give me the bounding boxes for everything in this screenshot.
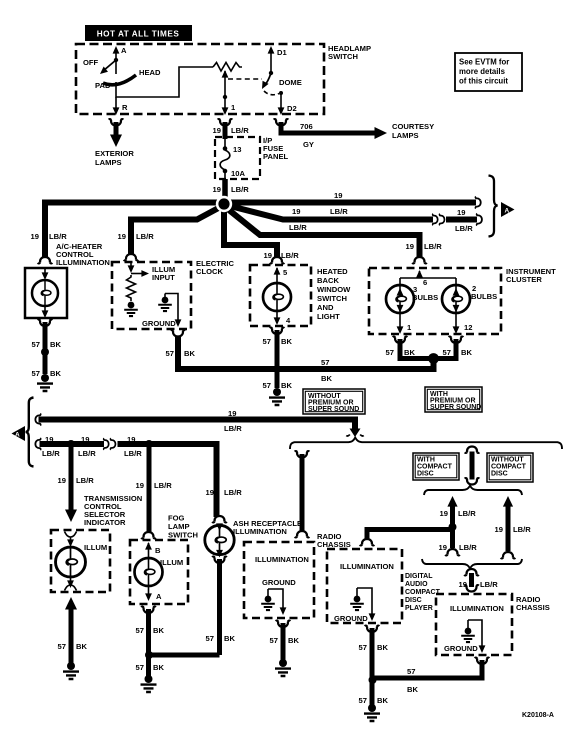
svg-text:LB/R: LB/R [513, 525, 531, 534]
pin 1 arrow [222, 107, 229, 115]
svg-text:19: 19 [213, 185, 221, 194]
svg-text:BK: BK [288, 636, 299, 645]
svg-text:of this circuit: of this circuit [459, 77, 508, 86]
label 57 BK [32, 340, 62, 349]
svg-text:19: 19 [213, 126, 221, 135]
label 19 LB/R fog [136, 481, 173, 490]
wire switch to R [115, 97, 117, 112]
I/P FUSE PANEL label [263, 136, 289, 161]
bus 2 end cap [35, 438, 40, 450]
connector into A/C heater [38, 257, 53, 263]
svg-text:D1: D1 [277, 48, 287, 57]
pin D2 arrow [278, 107, 285, 115]
svg-text:BK: BK [224, 634, 235, 643]
internal ground box2 [350, 596, 364, 610]
connector below pin 1 [218, 119, 233, 125]
svg-text:57: 57 [32, 369, 40, 378]
splice dot fog ground [145, 651, 153, 659]
svg-text:LB/R: LB/R [480, 580, 498, 589]
label 57 BK cluster left [386, 348, 416, 357]
in-line connector compact disc [465, 447, 480, 485]
svg-text:19: 19 [334, 191, 342, 200]
ground fog lamp [141, 675, 157, 692]
label 19 LB/R bus2 b [78, 435, 96, 458]
svg-text:D2: D2 [287, 104, 297, 113]
connector into heated back window [270, 257, 285, 263]
connector A triangle left [12, 426, 26, 441]
splice dot box2 ground [369, 676, 377, 684]
svg-text:CLUSTER: CLUSTER [506, 275, 542, 284]
wire R exterior lamps [114, 122, 119, 136]
resistor tap arrow [222, 70, 229, 111]
transmission entry connector [65, 532, 77, 548]
svg-text:HOT AT ALL TIMES: HOT AT ALL TIMES [97, 30, 180, 39]
svg-text:57: 57 [407, 667, 415, 676]
DIGITAL AUDIO COMPACT DISC PLAYER label [405, 573, 441, 612]
ground A/C heater [37, 374, 53, 391]
splice dot cluster grounds [428, 353, 439, 364]
A/C heater bulb [32, 280, 58, 306]
HEATED BACK WINDOW SWITCH AND LIGHT label [317, 267, 351, 321]
internal ground box1 [261, 596, 275, 610]
svg-text:57: 57 [32, 340, 40, 349]
svg-text:CHASSIS: CHASSIS [317, 540, 351, 549]
TRANSMISSION CONTROL SELECTOR INDICATOR label [84, 494, 142, 527]
with premium sound box [425, 387, 482, 412]
label 19 LB/R heated drop [264, 251, 300, 260]
radio options brace [290, 438, 562, 450]
svg-text:CLOCK: CLOCK [196, 267, 224, 276]
svg-text:BK: BK [281, 381, 292, 390]
ground box1 [275, 659, 291, 676]
label 19 LB/R bus2 a [42, 435, 60, 458]
svg-text:A: A [121, 46, 127, 55]
A/C-HEATER CONTROL ILLUMINATION label [56, 242, 110, 267]
wire ash to fog splice [149, 653, 220, 658]
label 19 LB/R [213, 126, 250, 135]
svg-text:DISC: DISC [491, 471, 508, 478]
svg-text:LB/R: LB/R [455, 224, 473, 233]
terminal D1 arrow [268, 46, 275, 73]
A/C heater box [25, 268, 67, 318]
connector below R [109, 119, 124, 125]
svg-text:10A: 10A [231, 169, 245, 178]
wire to electric clock [131, 205, 224, 254]
label 57 BK below dot [263, 381, 293, 390]
connector into fog lamp switch [141, 532, 156, 538]
svg-text:DIGITAL: DIGITAL [405, 573, 433, 580]
label 57 BK heated [263, 337, 293, 346]
svg-text:INPUT: INPUT [152, 273, 175, 282]
electric clock box [112, 262, 191, 329]
svg-text:HEAD: HEAD [139, 68, 161, 77]
label 57 BK ash [206, 634, 236, 643]
svg-text:BK: BK [377, 696, 388, 705]
wire 57 BK ash ground [217, 559, 222, 655]
svg-text:DISC: DISC [405, 597, 422, 604]
svg-text:LB/R: LB/R [281, 251, 299, 260]
clock internal ground right [158, 297, 172, 311]
heated back window box [250, 265, 311, 326]
svg-text:DOME: DOME [279, 78, 302, 87]
svg-text:19: 19 [45, 435, 53, 444]
label 57 BK fog lower [136, 663, 165, 672]
without compact disc box [487, 453, 533, 482]
svg-text:19: 19 [206, 488, 214, 497]
wire to fog lamp switch [147, 444, 152, 533]
svg-text:LB/R: LB/R [78, 449, 96, 458]
label 57 BK [32, 369, 62, 378]
bus 2 wire segment 2 [118, 444, 217, 517]
svg-text:ILLUMINATION: ILLUMINATION [340, 562, 394, 571]
svg-text:AND: AND [317, 303, 334, 312]
bus 1 wire 19 LB/R [39, 420, 356, 432]
without premium sound box [303, 389, 365, 414]
resistor (rheostat) [213, 63, 242, 72]
connector below D2 [274, 119, 289, 125]
svg-text:LB/R: LB/R [458, 509, 476, 518]
terminal A arrow [113, 46, 120, 74]
radio chassis box left [244, 542, 314, 618]
svg-text:LB/R: LB/R [231, 185, 249, 194]
fog bulb lead in [145, 542, 152, 558]
svg-text:more details: more details [459, 67, 506, 76]
label 19 LB/R cluster drop [406, 242, 443, 251]
wire to heated back window [224, 204, 277, 257]
svg-text:19: 19 [440, 509, 448, 518]
fog lamp bulb [135, 558, 163, 586]
ganged switch dashed link [228, 78, 262, 80]
svg-text:LB/R: LB/R [49, 232, 67, 241]
ash receptacle bulb [205, 523, 234, 557]
svg-text:57: 57 [263, 381, 271, 390]
svg-text:BK: BK [76, 642, 87, 651]
exterior lamps arrow [110, 135, 122, 148]
connector below ash bulb [212, 557, 227, 563]
RADIO CHASSIS label right [516, 595, 550, 612]
svg-text:BK: BK [461, 348, 472, 357]
svg-text:LB/R: LB/R [459, 543, 477, 552]
svg-text:SWITCH: SWITCH [168, 531, 198, 540]
svg-text:BK: BK [407, 685, 418, 694]
label 19 LB/R without CD [495, 525, 532, 534]
label 57 BK transmission [58, 642, 88, 651]
compact disc split brace [424, 486, 522, 495]
svg-text:19: 19 [495, 525, 503, 534]
svg-text:A: A [15, 432, 20, 439]
cluster feed tee [397, 270, 460, 313]
bus 2 wire segment 1 [40, 441, 105, 447]
svg-text:LB/R: LB/R [124, 449, 142, 458]
hot at all times label [85, 25, 192, 41]
svg-text:LB/R: LB/R [224, 424, 242, 433]
3 BULBS label [412, 285, 438, 302]
svg-text:LB/R: LB/R [224, 488, 242, 497]
see EVTM note box [455, 53, 522, 91]
svg-text:ILLUMINATION: ILLUMINATION [56, 258, 110, 267]
clock illum input lead [128, 262, 149, 277]
wire fuse to junction [222, 179, 228, 200]
internal ground box3 [461, 628, 475, 642]
2 BULBS label [471, 284, 497, 301]
wire 57 BK box1 ground [281, 623, 286, 660]
svg-text:GROUND: GROUND [444, 644, 478, 653]
wire 57 BK A/C ground [43, 322, 48, 374]
fuse 13 10A [220, 139, 230, 179]
wire heated ground [275, 330, 280, 388]
label 57 BK cluster right [443, 348, 473, 357]
I/P fuse panel box [215, 137, 260, 179]
label 19 LB/R ash [206, 488, 243, 497]
instrument cluster box [369, 268, 501, 334]
clock internal ground left [124, 302, 138, 316]
svg-text:BK: BK [153, 626, 164, 635]
svg-text:PLAYER: PLAYER [405, 605, 433, 612]
heated back window bulb [263, 283, 291, 311]
svg-text:GY: GY [303, 140, 314, 149]
label 19 LB/R connector [459, 580, 499, 589]
HEAD wiper arc [103, 75, 136, 85]
label 57 BK clock [166, 349, 196, 358]
svg-text:19: 19 [136, 481, 144, 490]
connector into ash bulb [212, 516, 227, 522]
svg-text:COMPACT: COMPACT [417, 464, 453, 471]
svg-text:19: 19 [439, 543, 447, 552]
svg-text:BK: BK [50, 340, 61, 349]
ground wire box2 [357, 588, 375, 621]
svg-text:57: 57 [359, 643, 367, 652]
svg-text:ILLUMINATION: ILLUMINATION [255, 555, 309, 564]
svg-text:57: 57 [386, 348, 394, 357]
svg-text:LIGHT: LIGHT [317, 312, 340, 321]
clock ground wire [165, 294, 181, 328]
INSTRUMENT CLUSTER label [506, 267, 556, 284]
bus 1 end cap [35, 414, 40, 426]
svg-text:A: A [505, 208, 510, 215]
courtesy lamps arrow [375, 127, 388, 139]
svg-text:WITHOUT: WITHOUT [491, 457, 524, 464]
svg-text:57: 57 [321, 358, 329, 367]
heated bulb lead out [274, 311, 281, 325]
svg-text:ILLUMINATION: ILLUMINATION [233, 527, 287, 536]
connector below cluster pin 12 [449, 337, 464, 343]
ground wire box1 [268, 589, 286, 615]
svg-text:6: 6 [423, 278, 427, 287]
svg-text:WITH: WITH [417, 457, 435, 464]
wire after in-line connector [446, 217, 477, 223]
bus1 drop to radio brace [346, 419, 363, 437]
svg-text:57: 57 [136, 663, 144, 672]
svg-text:See EVTM for: See EVTM for [459, 58, 509, 67]
svg-text:R: R [122, 103, 128, 112]
svg-text:HEATED: HEATED [317, 267, 348, 276]
svg-text:13: 13 [233, 145, 241, 154]
svg-text:SUPER SOUND: SUPER SOUND [308, 406, 359, 413]
without CD branch wire [501, 496, 516, 558]
svg-text:19: 19 [459, 580, 467, 589]
svg-text:57: 57 [359, 696, 367, 705]
svg-text:SWITCH: SWITCH [328, 52, 358, 61]
label 19 LB/R with CD [440, 509, 477, 518]
svg-text:57: 57 [443, 348, 451, 357]
label 19 LB/R A/C drop [31, 232, 68, 241]
ground wire box3 [468, 620, 485, 653]
transmission bulb lead out [65, 577, 77, 591]
svg-text:LB/R: LB/R [154, 481, 172, 490]
svg-text:19: 19 [457, 208, 465, 217]
svg-text:19: 19 [264, 251, 272, 260]
wire box3 ground to splice [373, 660, 483, 678]
svg-text:EXTERIOR: EXTERIOR [95, 149, 134, 158]
pin R arrow [113, 107, 120, 115]
brace connector A left [26, 398, 34, 467]
label 19 LB/R [213, 185, 250, 194]
connector below cluster pin 1 [393, 337, 408, 343]
svg-text:ILLUM: ILLUM [84, 543, 107, 552]
splice dot heated on bus [273, 365, 281, 373]
connector A triangle [501, 202, 515, 217]
svg-text:BULBS: BULBS [471, 292, 497, 301]
svg-text:BACK: BACK [317, 276, 339, 285]
transmission indicator box [51, 530, 110, 592]
cluster bulb left lead out [397, 313, 404, 334]
svg-text:CHASSIS: CHASSIS [516, 603, 550, 612]
wire to transmission indicator [69, 444, 74, 510]
svg-text:19: 19 [118, 232, 126, 241]
dome switch lever [259, 71, 273, 91]
label 57 BK below dot box2 [359, 696, 389, 705]
label 19 LB/R bus2 c [124, 435, 142, 458]
connector below fog switch [141, 607, 156, 613]
svg-text:WINDOW: WINDOW [317, 285, 351, 294]
RADIO CHASSIS label left [317, 532, 351, 549]
ILLUM INPUT label [152, 265, 175, 282]
A/C heater bulb lead in [42, 268, 49, 280]
svg-text:BK: BK [153, 663, 164, 672]
svg-text:ILLUMINATION: ILLUMINATION [450, 604, 504, 613]
svg-text:OFF: OFF [83, 58, 99, 67]
headlamp switch box [76, 44, 324, 114]
svg-text:LB/R: LB/R [231, 126, 249, 135]
svg-text:GROUND: GROUND [262, 578, 296, 587]
label 57 BK box2 [359, 643, 389, 652]
fog lamp switch box [130, 540, 188, 604]
wire 57 BK fog ground [146, 609, 151, 676]
merge brace lower [422, 559, 522, 568]
svg-text:INDICATOR: INDICATOR [84, 518, 126, 527]
connector into instrument cluster [412, 257, 427, 263]
svg-text:LAMPS: LAMPS [95, 158, 122, 167]
ASH RECEPTACLE ILLUMINATION label [233, 519, 302, 536]
cluster bulb right lead out [453, 313, 460, 334]
svg-text:19: 19 [292, 207, 300, 216]
label 19 LB/R transmission [58, 476, 95, 485]
FOG LAMP SWITCH label [168, 514, 198, 540]
connector below heated back window [270, 328, 285, 334]
wire 57 BK box2 ground [370, 628, 375, 705]
wire end cap lower [477, 214, 482, 226]
ELECTRIC CLOCK label [196, 259, 234, 276]
svg-text:57: 57 [58, 642, 66, 651]
junction splice node [216, 196, 232, 212]
wire 57 BK transmission ground [69, 609, 74, 663]
svg-text:19: 19 [228, 409, 236, 418]
svg-text:BK: BK [281, 337, 292, 346]
svg-text:AUDIO: AUDIO [405, 581, 428, 588]
svg-text:19: 19 [406, 242, 414, 251]
ground transmission [63, 662, 79, 679]
svg-text:GROUND: GROUND [142, 319, 176, 328]
svg-text:57: 57 [136, 626, 144, 635]
label 19 LB/R clock drop [118, 232, 155, 241]
connector below box2 [365, 626, 380, 632]
radio chassis branch wire [295, 451, 310, 537]
svg-text:LB/R: LB/R [42, 449, 60, 458]
svg-text:PANEL: PANEL [263, 152, 289, 161]
heated bulb lead in [274, 267, 281, 283]
splice dot fog drop [145, 440, 153, 448]
svg-text:BK: BK [184, 349, 195, 358]
in-line connector bus 2 [104, 438, 116, 449]
svg-text:ILLUM: ILLUM [160, 558, 183, 567]
svg-text:57: 57 [270, 636, 278, 645]
fog bulb lead out [145, 586, 152, 601]
ground box2 [364, 704, 380, 721]
connector into clock [124, 254, 139, 260]
switch wiper OFF lever [98, 58, 118, 77]
svg-text:19: 19 [58, 476, 66, 485]
transmission ground arrow up [65, 597, 77, 610]
wire to digital audio player [367, 530, 453, 540]
svg-text:BK: BK [404, 348, 415, 357]
svg-text:19: 19 [127, 435, 135, 444]
connector into digital audio player [360, 539, 375, 545]
connector below box1 [276, 621, 291, 627]
connector below A/C heater [38, 320, 53, 326]
dome dashed contact arc [264, 91, 279, 95]
COURTESY LAMPS label [392, 122, 434, 140]
cluster ground wires [400, 339, 456, 359]
svg-text:BK: BK [377, 643, 388, 652]
wire dome to D2 [279, 91, 283, 112]
svg-text:LB/R: LB/R [289, 223, 307, 232]
connector below box3 [475, 658, 490, 664]
svg-text:K20108-A: K20108-A [522, 712, 554, 719]
svg-text:LB/R: LB/R [424, 242, 442, 251]
svg-text:BK: BK [321, 374, 332, 383]
wire to A/C heater illumination [45, 203, 224, 258]
wire end cap top [475, 197, 480, 209]
label 19 LB/R lower with CD [439, 543, 478, 552]
svg-text:DISC: DISC [417, 471, 434, 478]
connector below clock [171, 330, 186, 336]
svg-text:LAMPS: LAMPS [392, 131, 419, 140]
cluster bulb left [386, 285, 414, 313]
svg-text:12: 12 [464, 323, 472, 332]
svg-text:BK: BK [50, 369, 61, 378]
wire 706 GY courtesy lamps [281, 122, 376, 133]
splice dot transmission drop [67, 440, 75, 448]
svg-text:COMPACT: COMPACT [491, 464, 527, 471]
svg-text:LB/R: LB/R [330, 207, 348, 216]
in-line connector radio chassis right [464, 569, 479, 592]
svg-text:SUPER SOUND: SUPER SOUND [430, 404, 481, 411]
wire right to connector A lower [224, 205, 433, 220]
in-line connector on lower wire [433, 214, 445, 225]
A/C heater bulb lead out [42, 306, 49, 318]
transmission bulb [56, 547, 86, 577]
digital audio player box [327, 549, 402, 623]
